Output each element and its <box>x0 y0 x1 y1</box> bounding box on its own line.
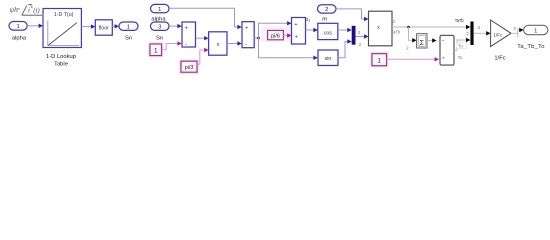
wire product X1 to SumB minus <box>227 41 242 45</box>
svg-text:x: x <box>377 25 380 31</box>
wire sin to mux1 <box>338 39 352 57</box>
wire mux2 to gain <box>474 31 491 35</box>
svg-text:Σ: Σ <box>420 38 425 47</box>
sum of elements (sigma) <box>417 34 427 48</box>
inport 3 Sn <box>151 22 170 41</box>
junction node on TaTb wire <box>407 26 416 43</box>
constant 1 (left) <box>150 44 163 57</box>
svg-text:-: - <box>185 42 187 48</box>
wire alpha top to SumB <box>169 8 242 29</box>
svg-text:+: + <box>294 22 297 28</box>
svg-text:cos: cos <box>324 31 333 37</box>
wire Sn to SumA <box>169 24 182 28</box>
constant pi/3 <box>181 61 198 73</box>
svg-text:Ta_Tb_To: Ta_Tb_To <box>517 44 544 50</box>
wire lookup to floor <box>81 24 95 28</box>
svg-text:1: 1 <box>127 25 130 31</box>
outport 1 Sn <box>119 22 138 41</box>
svg-text:3: 3 <box>158 25 161 31</box>
inport 1 alpha (top) <box>151 4 170 22</box>
svg-text:Table: Table <box>54 62 68 68</box>
svg-text:Sn: Sn <box>125 35 132 41</box>
wire gain to outport <box>511 28 524 34</box>
svg-text:-: - <box>442 37 444 44</box>
mux2 bar <box>470 22 473 46</box>
highlight halo around pi/6 <box>262 27 296 43</box>
annotation equation psi_h = angle i*(t) <box>10 4 43 15</box>
constant 1 (right) <box>372 53 388 66</box>
svg-text:1: 1 <box>154 48 158 55</box>
svg-text:+: + <box>295 34 298 40</box>
wire m to product X2 <box>336 9 369 21</box>
wire constant 1 to SumA minus <box>162 41 182 50</box>
wire SumA to product X1 <box>196 36 209 40</box>
wire floor to outport Sn <box>112 24 119 28</box>
gain 1/Fc triangle <box>491 20 511 61</box>
product X2 (m * [cos sin]) <box>369 11 393 46</box>
svg-text:m: m <box>322 17 327 23</box>
wire constant 1 to subtract plus <box>387 57 440 61</box>
svg-text:α1: α1 <box>305 17 310 23</box>
svg-text:sin: sin <box>325 56 332 62</box>
inport 1 alpha (left) <box>9 22 27 42</box>
svg-text:1-D Lookup: 1-D Lookup <box>46 54 76 60</box>
svg-text:Sn: Sn <box>156 35 163 41</box>
outport 1 Ta_Tb_To <box>517 25 548 50</box>
floor block <box>95 20 112 35</box>
mux1 bar <box>352 26 356 45</box>
svg-text:To: To <box>458 44 463 49</box>
wire alpha to lookup <box>27 24 43 28</box>
sum SumB (alpha - (Sn-1)*pi/3) <box>242 22 254 49</box>
svg-text:alpha: alpha <box>12 35 27 41</box>
wire pi/6 to SumC <box>283 33 291 37</box>
svg-text:pi/6: pi/6 <box>271 34 280 40</box>
svg-text:(t): (t) <box>33 8 40 15</box>
svg-text:1-D T(u): 1-D T(u) <box>54 12 74 18</box>
svg-text:2: 2 <box>325 7 328 13</box>
label To (upper) <box>456 42 466 48</box>
wire mux1 to product X2 <box>356 34 369 38</box>
1-D Lookup Table block <box>43 9 81 68</box>
sum SumA (Sn - 1) <box>182 22 196 48</box>
cos block <box>318 23 338 39</box>
wire sigma to subtract <box>427 38 437 42</box>
svg-text:x: x <box>217 42 220 48</box>
svg-text:1: 1 <box>534 28 537 34</box>
wire pi/3 to product X1 <box>197 48 209 65</box>
svg-text:+: + <box>185 25 188 31</box>
svg-text:+: + <box>442 57 445 62</box>
svg-text:pi/3: pi/3 <box>185 65 194 71</box>
wire SumB out with branch node <box>254 21 318 60</box>
svg-text:1: 1 <box>377 57 381 64</box>
wire subtract To to mux2 <box>454 38 470 50</box>
svg-text:+: + <box>245 26 248 32</box>
svg-text:To: To <box>458 55 463 60</box>
svg-text:1/Fc: 1/Fc <box>494 55 505 61</box>
inport 2 m <box>318 5 337 23</box>
wire X2 out TaTb to mux2 <box>392 25 470 29</box>
svg-text:TaTb: TaTb <box>455 18 465 23</box>
sin block <box>318 50 338 66</box>
svg-text:1: 1 <box>158 7 161 13</box>
product X1 <box>209 32 227 55</box>
wire cos to mux1 <box>338 28 352 32</box>
sum SumC (+ pi/6) <box>292 18 306 45</box>
subtract block (1 - sum) <box>440 35 454 65</box>
svg-text:1: 1 <box>16 24 19 30</box>
svg-text:TaTb: TaTb <box>391 30 401 35</box>
svg-text:1/Fc: 1/Fc <box>493 33 503 38</box>
svg-text:-: - <box>245 42 247 48</box>
svg-text:floor: floor <box>99 26 110 32</box>
constant pi/6 <box>268 30 284 39</box>
wire SumC to cos <box>306 28 318 32</box>
svg-text:=: = <box>16 6 20 13</box>
